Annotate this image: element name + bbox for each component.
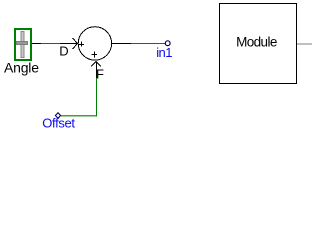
svg-text:F: F	[96, 67, 104, 82]
svg-text:in1: in1	[156, 45, 172, 60]
svg-text:Offset: Offset	[42, 116, 75, 130]
plus sign (bottom input)	[92, 51, 97, 57]
label D (left input)	[59, 44, 68, 59]
port marker diamond (Offset)	[55, 113, 60, 118]
svg-text:D: D	[59, 44, 68, 59]
label in1	[156, 45, 172, 60]
label Angle	[4, 60, 39, 76]
wire: Angle output stub	[32, 43, 41, 45]
plus sign (left input)	[79, 42, 84, 47]
label Offset	[42, 116, 75, 131]
svg-text:Angle: Angle	[4, 60, 39, 76]
wire: green link Offset to sum (horizontal)	[61, 115, 97, 117]
slider source block (Angle)	[15, 29, 31, 60]
label F (bottom input)	[96, 67, 104, 82]
svg-text:Module: Module	[236, 34, 277, 49]
wire: green link sum to in1	[131, 43, 166, 45]
label Module	[236, 34, 277, 49]
slider track	[21, 32, 24, 58]
wire: green link Offset to sum (vertical)	[96, 78, 98, 116]
slider handle	[17, 42, 28, 45]
wire: sum output stub	[112, 43, 131, 45]
wire: green link Angle to sum	[41, 43, 60, 45]
wire: sum bottom input stub with arrowhead	[91, 61, 101, 78]
port marker circle (in1)	[165, 41, 170, 46]
sum junction circle	[78, 27, 111, 60]
wire: sum left input stub with arrowhead	[60, 38, 78, 49]
wire: Module right port stub	[297, 43, 312, 45]
block Module	[220, 4, 297, 84]
